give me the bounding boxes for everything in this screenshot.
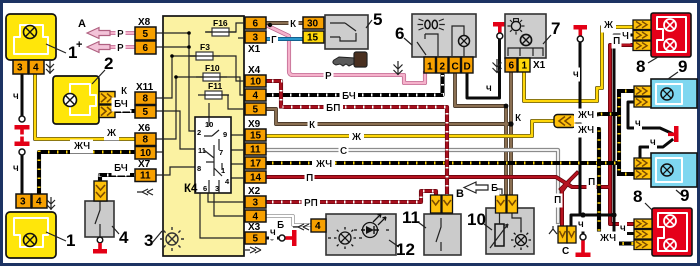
ground symbol lamp1 bottom [47, 197, 55, 210]
svg-text:X8: X8 [138, 17, 151, 28]
svg-text:РП: РП [304, 198, 318, 209]
wire label P crossing [588, 177, 595, 188]
headlamp 1 top-left [6, 14, 66, 60]
wire label S bus [340, 146, 347, 157]
tail lamp unit 8 bottom [645, 203, 692, 256]
svg-text:ч: ч [573, 69, 579, 80]
svg-text:8: 8 [633, 187, 642, 206]
fuse F3 [189, 42, 220, 60]
wire Ch black comp8a to comp8b [614, 35, 634, 234]
connector of 8 bottom [634, 219, 652, 250]
wire label P pink [325, 71, 332, 82]
svg-text:9: 9 [223, 130, 227, 139]
connector X7 [135, 169, 156, 182]
svg-text:ч: ч [486, 83, 492, 94]
wire label P to connector C [554, 195, 561, 206]
wire Ch black body-bolt column right [579, 44, 582, 215]
svg-text:6: 6 [253, 19, 259, 30]
wire label P left 1 [117, 29, 124, 40]
wire label P left 2 [117, 43, 124, 54]
connector of 8 top [633, 20, 651, 51]
svg-text:11: 11 [250, 145, 261, 156]
wire label BCh comp2 [114, 99, 128, 110]
svg-text:X1: X1 [533, 60, 546, 71]
wire Ch black comp6 pinD ground [467, 40, 500, 98]
svg-text:11: 11 [140, 171, 151, 182]
wire Ch black comp9a ground [628, 102, 671, 133]
wire label K comp7 [515, 113, 522, 124]
svg-text:X4: X4 [248, 65, 261, 76]
connector of 9 top [634, 86, 651, 107]
wire label ch right bolt [573, 69, 579, 80]
tail lamp unit 8 top [648, 13, 691, 63]
arrow B white [464, 182, 488, 193]
wire label ZhCh bus [315, 159, 332, 170]
wire label ZhCh splice 2 [577, 125, 594, 136]
svg-text:В: В [456, 188, 464, 200]
connector X2 pins [245, 196, 266, 223]
fuse F11 [198, 81, 229, 99]
svg-text:Г: Г [271, 35, 277, 46]
connector X4 pins [245, 75, 266, 116]
svg-text:ч: ч [13, 91, 19, 102]
svg-text:К: К [309, 120, 316, 131]
svg-text:4: 4 [253, 91, 259, 102]
red body bolt middle right [668, 126, 679, 142]
pin 4 of comp12 [311, 219, 326, 232]
svg-text:F11: F11 [208, 81, 222, 91]
connector X6 [135, 133, 156, 159]
wire Ch black X3-5 ground [266, 237, 278, 240]
wire label BCh comp4 [114, 163, 128, 174]
svg-text:1: 1 [66, 231, 75, 250]
svg-text:С: С [562, 246, 569, 257]
svg-text:ЖЧ: ЖЧ [599, 233, 616, 244]
svg-text:1: 1 [68, 43, 77, 62]
wire label ch left bottom [13, 163, 19, 174]
svg-text:2: 2 [197, 128, 201, 137]
wire label ZhCh left [73, 141, 90, 152]
svg-text:БЧ: БЧ [342, 91, 356, 102]
wire ZhCh striped runs [39, 152, 135, 194]
wire RP striped run [266, 191, 436, 202]
svg-text:7: 7 [219, 148, 223, 157]
ground symbol lamp1 top [46, 61, 54, 74]
svg-text:3: 3 [20, 197, 26, 208]
continuation mark below X3 [245, 247, 261, 253]
wire label P comp8a [613, 36, 620, 47]
svg-text:9: 9 [680, 186, 689, 205]
svg-text:D: D [464, 62, 471, 73]
svg-text:4: 4 [33, 63, 39, 74]
svg-text:4: 4 [36, 197, 42, 208]
instrument light 7 [505, 14, 551, 58]
wire Ch black ground bus y215 [571, 215, 614, 234]
wire BP striped run [266, 81, 447, 196]
svg-text:Ж: Ж [106, 128, 117, 139]
svg-text:ЖЧ: ЖЧ [577, 110, 594, 121]
wire label G [271, 35, 277, 46]
connector X9 pins [245, 129, 266, 184]
svg-text:Ч: Ч [622, 31, 629, 42]
ground symbol left of comp6 pins [394, 61, 403, 75]
svg-text:БЧ: БЧ [114, 99, 128, 110]
wire label P bus [306, 173, 313, 184]
wire label ch comp8b [620, 223, 626, 234]
svg-text:ч: ч [270, 227, 276, 238]
wire label K to terminal 30 [290, 19, 297, 30]
arrow A pink [87, 28, 110, 53]
connector pins of lamp 2 [99, 92, 115, 118]
svg-text:ч: ч [578, 219, 584, 230]
continuation mark below X7 [137, 189, 153, 195]
svg-text:БЧ: БЧ [114, 163, 128, 174]
wire label Zh comp8a [603, 20, 614, 31]
svg-text:8: 8 [143, 135, 149, 146]
pin 3 of lamp 1 bottom [16, 194, 31, 208]
svg-text:ч: ч [650, 137, 656, 148]
svg-text:6: 6 [395, 24, 404, 43]
svg-text:Р: Р [325, 71, 332, 82]
svg-text:5: 5 [253, 234, 259, 245]
svg-text:6: 6 [143, 43, 149, 54]
illumination rheostat 10 [484, 195, 534, 254]
svg-text:К4: К4 [184, 183, 198, 195]
svg-text:ч: ч [635, 118, 641, 129]
svg-text:К: К [515, 113, 522, 124]
svg-text:П: П [306, 173, 313, 184]
wire label Zh bus [351, 132, 362, 143]
WIRES-LAYER [22, 23, 672, 244]
svg-text:ЖЧ: ЖЧ [73, 141, 90, 152]
svg-text:10: 10 [467, 210, 486, 229]
connector X8 [135, 27, 156, 54]
svg-text:3: 3 [253, 33, 259, 44]
wire label B comp10 [491, 183, 498, 194]
red body junction pair left [15, 125, 30, 146]
connector X1 pins on block3 [245, 17, 266, 44]
svg-text:2: 2 [440, 62, 446, 73]
svg-text:11: 11 [402, 208, 420, 227]
headlight switch 6 [404, 14, 476, 57]
wire label K comp2 [121, 86, 128, 97]
svg-text:5: 5 [143, 107, 149, 118]
svg-text:П: П [613, 36, 620, 47]
svg-text:F16: F16 [213, 18, 228, 28]
svg-text:5: 5 [373, 10, 382, 29]
red body bolt top right [574, 25, 588, 42]
svg-text:F3: F3 [200, 42, 210, 52]
wire label RP bus [304, 198, 318, 209]
connector of 9 bottom [634, 158, 651, 179]
svg-text:X11: X11 [136, 82, 154, 93]
svg-text:4: 4 [315, 221, 321, 232]
wire Ch black comp1a down [21, 74, 24, 194]
svg-text:14: 14 [250, 173, 262, 184]
license lamp 9 bottom [651, 153, 697, 196]
wire BCh striped runs [115, 110, 135, 112]
fog light switch 11 [418, 195, 461, 255]
wire label Zh left [106, 128, 117, 139]
svg-text:15: 15 [307, 33, 319, 44]
svg-text:X3: X3 [248, 222, 261, 233]
svg-text:4: 4 [253, 212, 259, 223]
svg-text:15: 15 [250, 131, 262, 142]
svg-text:F10: F10 [205, 63, 220, 73]
svg-text:4: 4 [119, 228, 129, 247]
wire label BCh bus [342, 91, 356, 102]
fuse F16 [205, 18, 236, 36]
continuation mark left of comp12 [293, 224, 309, 230]
svg-text:3: 3 [17, 63, 23, 74]
ground circle and red bolt X3-5 [279, 235, 285, 241]
wire Ch black comp9b ground [640, 140, 672, 158]
svg-text:ч: ч [13, 163, 19, 174]
svg-text:12: 12 [396, 240, 415, 259]
svg-text:8: 8 [636, 57, 645, 76]
svg-text:1: 1 [427, 62, 433, 73]
wire label ZhCh splice 1 [577, 110, 594, 121]
ground symbol left of comp7 pins [493, 59, 502, 73]
svg-text:17: 17 [250, 159, 262, 170]
wire label ch comp9a [635, 118, 641, 129]
fuse-relay block 3 [156, 16, 244, 256]
svg-text:П: П [588, 177, 595, 188]
pin 4 of lamp 1 bottom [32, 194, 47, 208]
wire label ch connector C [578, 219, 584, 230]
wire label ch comp8a [622, 31, 629, 42]
red body bolt near comp6 [493, 22, 507, 39]
svg-text:7: 7 [551, 19, 560, 38]
svg-text:П: П [554, 195, 561, 206]
svg-text:ч: ч [620, 223, 626, 234]
svg-text:ЖЧ: ЖЧ [315, 159, 332, 170]
svg-text:1: 1 [522, 61, 528, 72]
svg-text:8: 8 [197, 164, 201, 173]
svg-text:6: 6 [509, 61, 515, 72]
svg-text:К: К [290, 19, 297, 30]
svg-text:3: 3 [144, 231, 153, 250]
svg-text:2: 2 [104, 54, 113, 73]
pins 1 2 C D of comp6 [424, 57, 473, 73]
headlamp 1 bottom-left [6, 212, 66, 258]
svg-text:6: 6 [203, 184, 207, 193]
switch 4 bottom-left [85, 181, 119, 254]
svg-text:X1: X1 [248, 44, 261, 55]
single connector C [549, 226, 576, 243]
lighting icon inside block 3 [160, 227, 184, 251]
wire label ZhCh comp8b [599, 233, 616, 244]
sidelight 2 [53, 70, 105, 124]
svg-text:30: 30 [307, 19, 319, 30]
svg-text:С: С [340, 146, 347, 157]
svg-text:9: 9 [678, 57, 687, 76]
svg-text:10: 10 [250, 77, 262, 88]
wire label ch X3 [270, 227, 276, 238]
svg-text:ЖЧ: ЖЧ [577, 125, 594, 136]
relay K4 [184, 117, 231, 195]
svg-text:X7: X7 [138, 159, 151, 170]
svg-text:А: А [78, 18, 86, 30]
pin 4 of lamp 1 top [29, 60, 44, 74]
svg-text:10: 10 [140, 148, 152, 159]
svg-text:5: 5 [253, 105, 259, 116]
wire label B white [277, 220, 284, 231]
pins 6 1 of comp7 [505, 58, 530, 72]
connector circles on black wire left [19, 116, 25, 122]
ground circle and red bolt bottom right [580, 234, 586, 240]
svg-text:C: C [452, 62, 459, 73]
svg-text:Б: Б [277, 220, 284, 231]
svg-text:БП: БП [326, 103, 340, 114]
svg-text:8: 8 [143, 94, 149, 105]
svg-text:X6: X6 [138, 123, 151, 134]
wire label ch left top [13, 91, 19, 102]
svg-text:Ж: Ж [603, 20, 614, 31]
wire label ch comp9b [650, 137, 656, 148]
svg-text:Р: Р [117, 43, 124, 54]
svg-text:X2: X2 [248, 186, 261, 197]
svg-text:К: К [121, 86, 128, 97]
connector X3 pin [245, 232, 266, 245]
license lamp 9 top [651, 72, 697, 108]
splice connector [554, 115, 576, 128]
lamp check 12 [326, 214, 399, 255]
pin 3 of lamp 1 top [13, 60, 28, 74]
wire label ch comp6 ground [486, 83, 492, 94]
connector X11 [135, 92, 156, 118]
svg-text:3: 3 [253, 198, 259, 209]
wire label BP bus [326, 103, 340, 114]
svg-text:Р: Р [117, 29, 124, 40]
wire label K bus [309, 120, 316, 131]
ignition switch 5 [303, 15, 372, 67]
fuse F10 [196, 63, 227, 81]
svg-text:X9: X9 [248, 119, 261, 130]
svg-text:5: 5 [143, 29, 149, 40]
svg-text:Ж: Ж [351, 132, 362, 143]
